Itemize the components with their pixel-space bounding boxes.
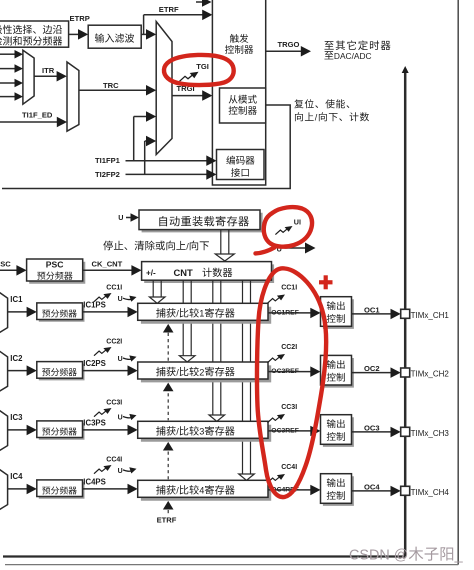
svg-text:CC4I: CC4I <box>106 457 122 464</box>
wire IC4PS to capture register <box>83 484 138 495</box>
hollow arrow ARR to CNT <box>215 230 234 261</box>
wire TI1F_ED into TRC mux <box>0 117 67 127</box>
red circle around UI <box>256 207 313 253</box>
label OC4REF <box>271 487 299 494</box>
box: auto-reload register 自动重装载寄存器 <box>139 210 263 232</box>
svg-text:CC1I: CC1I <box>281 285 297 292</box>
svg-text:+/-: +/- <box>146 268 156 277</box>
svg-text:IC2PS: IC2PS <box>83 359 106 368</box>
label OC3 <box>364 423 380 432</box>
label U before ARR <box>118 213 123 222</box>
box: output control 3 输出控制 <box>321 415 354 447</box>
box: input filter 输入滤波 <box>88 25 141 48</box>
label IC3PS <box>83 419 106 428</box>
hollow arrow CNT to CC2 register <box>179 280 195 362</box>
pin pad TIMx_CH2 <box>401 368 410 377</box>
label IC1 <box>10 295 23 304</box>
label CC1I (right) <box>281 285 297 292</box>
label TIMx_CH3 <box>411 429 450 438</box>
wire IC1 to prescaler <box>8 307 37 318</box>
svg-text:OC4: OC4 <box>364 482 380 491</box>
event arrow CC1I (left) <box>94 293 112 302</box>
box: capture/compare register 4 <box>138 480 272 500</box>
label TRGI <box>177 84 195 93</box>
wire TI1FP1 branch to big mux <box>134 111 157 161</box>
svg-text:/: / <box>176 486 179 496</box>
arrow up into CC1 register bottom <box>163 324 174 333</box>
arrow U row3 <box>123 414 137 420</box>
label CC1I (left) <box>106 285 122 292</box>
box: IC3 prescaler 预分频器 <box>37 421 85 440</box>
event arrow CC2I (left) <box>94 347 112 356</box>
label TRGO <box>278 40 300 49</box>
event arrow UI <box>275 226 292 235</box>
svg-text:U: U <box>118 468 123 475</box>
svg-text:TIMx_CH3: TIMx_CH3 <box>411 429 450 438</box>
wire ETRF from filter to big mux <box>141 29 156 39</box>
wire mux input y=54.2 <box>0 50 23 59</box>
label CC3I (left) <box>106 400 122 407</box>
svg-text:U: U <box>118 415 123 422</box>
event arrow CC4I (right) <box>268 474 286 483</box>
wire TRC to big mux <box>79 85 156 96</box>
label IC4PS <box>83 478 106 487</box>
label TIMx_CH4 <box>411 488 450 497</box>
hollow arrow CNT to CC4 register <box>239 280 255 480</box>
svg-text:TI2FP2: TI2FP2 <box>95 170 120 179</box>
svg-text:OC1: OC1 <box>364 305 380 314</box>
wire IC2 to prescaler <box>8 365 37 376</box>
svg-text:ETRP: ETRP <box>70 14 90 23</box>
wire IC3PS to capture register <box>83 425 138 436</box>
arrow up into CC2 register bottom <box>163 383 174 392</box>
label TGI <box>196 62 209 71</box>
wire mux input y=68.6 <box>0 64 23 73</box>
svg-text:IC3PS: IC3PS <box>83 419 106 428</box>
label IC2PS <box>83 359 106 368</box>
arrow U row2 <box>123 355 137 361</box>
svg-text:U: U <box>118 356 123 363</box>
label OC2 <box>364 364 380 373</box>
wire IC4 to prescaler <box>8 484 37 495</box>
mux: IC3 input select (cropped) <box>0 409 8 451</box>
label TI2FP2 <box>95 170 120 179</box>
arrow U into ARR <box>126 213 139 222</box>
svg-text:2: 2 <box>199 367 204 377</box>
wire OC3 to pin <box>352 427 401 438</box>
box: IC1 prescaler 预分频器 <box>37 303 85 322</box>
wire TI1FP1 to encoder <box>126 155 217 166</box>
svg-text:IC4: IC4 <box>10 472 23 481</box>
svg-text:/: / <box>176 367 179 377</box>
event arrow CC2I (right) <box>268 354 286 363</box>
event arrow CC4I (left) <box>94 465 112 474</box>
arrow U event <box>285 243 316 254</box>
pin pad TIMx_CH3 <box>401 427 410 436</box>
svg-text:IC2: IC2 <box>10 354 23 363</box>
svg-text:UI: UI <box>294 218 301 227</box>
right bus thick line with top arrow <box>3 66 409 557</box>
wire ITR to second mux <box>34 71 67 82</box>
svg-text:3: 3 <box>199 427 204 437</box>
box: CNT counter <box>142 262 275 283</box>
label CC3I (right) <box>281 404 297 411</box>
box: polarity select / edge detect / prescaler (cropped left) <box>0 21 69 47</box>
svg-text:TI1F_ED: TI1F_ED <box>22 110 53 119</box>
svg-text:CSDN @: CSDN @ <box>349 548 408 564</box>
arrow up into CC4 register bottom <box>163 501 174 510</box>
svg-text:/: / <box>176 427 179 437</box>
label ETRP <box>70 14 90 23</box>
svg-text:U: U <box>118 296 123 303</box>
label CC2I (left) <box>106 339 122 346</box>
svg-text:TIMx_CH1: TIMx_CH1 <box>411 311 450 320</box>
red circle around TGI <box>164 55 234 85</box>
wire CK_PSC into PSC <box>0 265 27 276</box>
svg-text:ETRF: ETRF <box>157 516 177 525</box>
label TI1F_ED <box>22 110 53 119</box>
red plus sign <box>319 275 333 289</box>
event arrow CC3I (right) <box>268 414 286 423</box>
svg-text:OC2: OC2 <box>364 364 380 373</box>
box: PSC prescaler <box>27 259 86 284</box>
label OC1 <box>364 305 380 314</box>
svg-text:DAC/ADC: DAC/ADC <box>334 51 372 61</box>
svg-text:4: 4 <box>199 486 204 496</box>
svg-text:CC1I: CC1I <box>106 285 122 292</box>
box: trigger controller 触发控制器 (top cropped) <box>212 0 265 185</box>
box: output control 1 输出控制 <box>321 297 354 329</box>
watermark CSDN @木子阳_ <box>349 547 464 564</box>
svg-text:SC: SC <box>0 259 11 268</box>
svg-text:TRC: TRC <box>103 81 119 90</box>
label stop/clear/up-down <box>103 241 209 252</box>
box: capture/compare register 3 <box>138 421 272 441</box>
label CK_PSC (cropped) <box>0 259 11 268</box>
svg-text:TRGO: TRGO <box>278 40 300 49</box>
label U row2 <box>118 356 123 363</box>
label TIMx_CH1 <box>411 311 450 320</box>
svg-text:IC3: IC3 <box>10 413 23 422</box>
svg-text:U: U <box>118 213 123 222</box>
label TIMx_CH2 <box>411 370 450 379</box>
wire IC3 to prescaler <box>8 425 37 436</box>
svg-text:PSC: PSC <box>46 260 64 270</box>
svg-text:ETRF: ETRF <box>159 5 179 14</box>
bottom gray border line <box>5 564 458 566</box>
svg-text:TGI: TGI <box>196 62 209 71</box>
label UI <box>294 218 301 227</box>
box: IC2 prescaler 预分频器 <box>37 362 85 381</box>
mux: trigger input select (big) <box>156 22 172 155</box>
svg-text:CK_CNT: CK_CNT <box>92 259 123 268</box>
label ETRF (top) <box>159 5 179 14</box>
label U row4 <box>118 468 123 475</box>
svg-text:ITR: ITR <box>42 66 55 75</box>
wire OC4REF to output control <box>268 485 321 496</box>
mux: TRC select <box>67 62 79 131</box>
box: output control 4 输出控制 <box>321 474 354 506</box>
svg-text:CC4I: CC4I <box>281 464 297 471</box>
box: capture/compare register 1 <box>138 303 272 323</box>
svg-text:CC3I: CC3I <box>106 400 122 407</box>
wire IC1PS to capture register <box>83 307 138 318</box>
wire IC2PS to capture register <box>83 365 138 376</box>
svg-text:CC2I: CC2I <box>106 339 122 346</box>
arrow U row4 <box>123 467 137 473</box>
event arrow CC3I (left) <box>94 408 112 417</box>
label U row3 <box>118 415 123 422</box>
wire OC2 to pin <box>352 367 401 378</box>
wire mux input y=96.6 <box>0 92 23 101</box>
label ETRF (bottom) <box>157 516 177 525</box>
wire TI2FP2 branch to big mux <box>145 136 157 175</box>
label U event <box>277 244 282 253</box>
box: slave mode controller 从模式控制器 <box>220 88 266 123</box>
arrow up into CC3 register bottom <box>163 442 174 451</box>
wire TI2FP2 to encoder <box>126 169 217 180</box>
svg-text:CC2I: CC2I <box>281 344 297 351</box>
red oval around CCxI/OCxREF column <box>257 268 326 497</box>
pin pad TIMx_CH1 <box>401 309 410 318</box>
event arrow CC1I (right) <box>268 295 286 304</box>
label reset/enable/up-down/count <box>294 99 369 122</box>
svg-text:TI1FP1: TI1FP1 <box>95 156 121 165</box>
svg-text:_: _ <box>454 548 464 564</box>
mux: IC4 input select (cropped) <box>0 468 8 510</box>
label OC2REF <box>271 368 299 375</box>
svg-text:OC3: OC3 <box>364 423 380 432</box>
wire OC3REF to output control <box>268 426 321 437</box>
wire TRGI into slave mode controller <box>172 90 212 101</box>
mux: IC1 input select (cropped) <box>0 291 8 333</box>
label CC4I (right) <box>281 464 297 471</box>
dashed wire ETRF vertical <box>167 333 169 514</box>
mux: ITR select <box>23 50 34 104</box>
right thin border line <box>457 0 459 565</box>
svg-text:1: 1 <box>199 309 204 319</box>
label OC4 <box>364 482 380 491</box>
label TRC <box>103 81 119 90</box>
svg-text:TIMx_CH4: TIMx_CH4 <box>411 488 450 497</box>
arrow U row1 <box>123 296 137 302</box>
wire OC1REF to output control <box>268 308 321 319</box>
wire ETRP with arrow into input filter <box>69 29 89 39</box>
label ITR <box>42 66 55 75</box>
box: output control 2 输出控制 <box>321 355 354 387</box>
svg-text:CNT: CNT <box>174 267 194 278</box>
label IC4 <box>10 472 23 481</box>
wire slave controller to counter control <box>2 105 290 189</box>
label IC2 <box>10 354 23 363</box>
label IC3 <box>10 413 23 422</box>
svg-text:TIMx_CH2: TIMx_CH2 <box>411 370 450 379</box>
wire mux input y=83.0 <box>0 79 23 87</box>
label CK_CNT <box>92 259 123 268</box>
box: encoder interface 编码器接口 <box>217 150 265 180</box>
box: capture/compare register 2 <box>138 362 272 382</box>
label CC2I (right) <box>281 344 297 351</box>
label to other timers / DAC/ADC <box>324 40 390 61</box>
hollow arrow CNT to CC3 register <box>209 280 225 421</box>
wire CK_CNT into CNT <box>83 265 142 276</box>
svg-text:CC3I: CC3I <box>281 404 297 411</box>
label OC3REF <box>271 428 299 435</box>
cropped wire at very top into trigger controller <box>196 0 212 7</box>
svg-text:IC4PS: IC4PS <box>83 478 106 487</box>
hollow arrow CNT to CC1 register <box>149 280 165 303</box>
wire ETRF riser to trigger controller <box>144 10 213 35</box>
label CC4I (left) <box>106 457 122 464</box>
svg-text:IC1: IC1 <box>10 295 23 304</box>
label U row1 <box>118 296 123 303</box>
wire OC1 to pin <box>352 309 401 320</box>
svg-text:/: / <box>176 309 179 319</box>
label OC1REF <box>271 310 299 317</box>
wire OC4 to pin <box>352 486 401 497</box>
wire OC2REF to output control <box>268 366 321 377</box>
box: IC4 prescaler 预分频器 <box>37 480 85 499</box>
event arrow TGI <box>180 72 199 82</box>
pin pad TIMx_CH4 <box>401 486 410 495</box>
label IC1PS <box>83 301 106 310</box>
label TI1FP1 <box>95 156 121 165</box>
mux: IC2 input select (cropped) <box>0 350 8 392</box>
wire TRGO output <box>266 46 311 57</box>
